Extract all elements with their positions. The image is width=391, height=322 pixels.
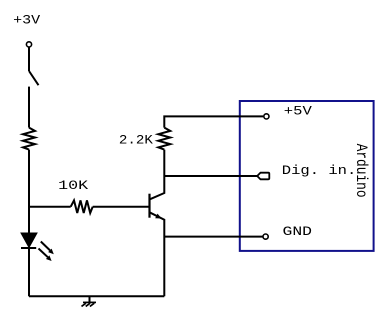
svg-text:+3V: +3V xyxy=(13,13,40,28)
wire emitter rail to GND pin xyxy=(164,236,263,238)
svg-text:+5V: +5V xyxy=(284,104,312,119)
terminal circle +5V pin xyxy=(264,114,269,119)
svg-text:Dig. in.: Dig. in. xyxy=(282,163,357,178)
transistor Q1 base bar xyxy=(148,194,150,218)
Arduino box U1 xyxy=(240,101,374,251)
pin tag Dig. in. xyxy=(257,173,269,180)
wire resistor R3 top to +5V pin xyxy=(164,116,263,127)
svg-text:GND: GND xyxy=(283,224,313,239)
LED light arrow 2 xyxy=(39,249,52,262)
LED D1 triangle xyxy=(21,233,37,248)
svg-text:2.2K: 2.2K xyxy=(119,132,153,147)
transistor Q1 collector lead xyxy=(150,150,165,200)
LED D1 cathode bar xyxy=(21,247,36,249)
wire switch to resistor R1 xyxy=(28,87,30,128)
svg-text:10K: 10K xyxy=(58,178,88,193)
transistor Q1 emitter lead xyxy=(150,212,165,296)
resistor R3 2.2K (vertical) xyxy=(158,128,170,150)
wire left rail to resistor R2 xyxy=(29,206,71,208)
terminal circle GND pin xyxy=(263,234,268,239)
resistor R1 (vertical, left) xyxy=(23,128,35,150)
wire LED cathode to bottom rail xyxy=(28,248,30,296)
wire from +3V terminal to switch xyxy=(28,47,30,71)
bottom rail wire xyxy=(29,295,164,297)
wire resistor R2 to transistor base xyxy=(93,206,150,208)
transistor Q1 emitter arrow xyxy=(155,214,162,219)
terminal circle +3V xyxy=(26,42,31,47)
wire collector node to Dig. in. pin xyxy=(164,175,257,177)
resistor R2 10K (horizontal) xyxy=(71,200,93,213)
LED light arrow 1 xyxy=(41,242,54,255)
switch S1 blade xyxy=(29,71,39,85)
wire resistor R1 to LED anode xyxy=(28,150,30,233)
ground symbol xyxy=(82,296,97,306)
